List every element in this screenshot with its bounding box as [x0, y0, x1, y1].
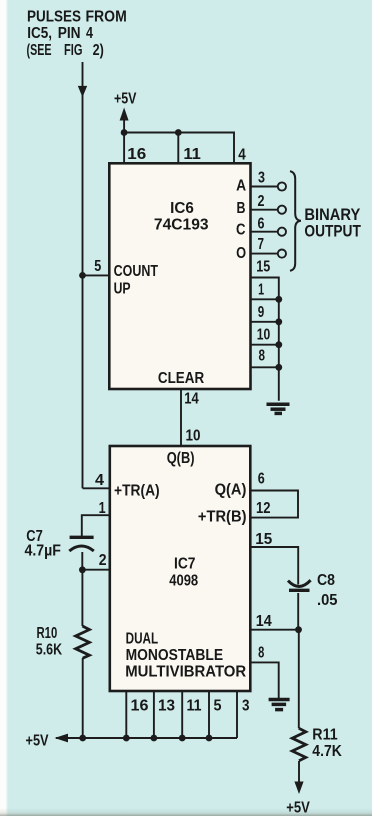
pin number 14 (IC7 right) [256, 612, 273, 630]
svg-text:IC5,: IC5, [27, 25, 52, 42]
svg-text:PULSES: PULSES [27, 9, 81, 26]
svg-text:8: 8 [259, 347, 266, 364]
label output A [236, 178, 246, 195]
capacitor C7 [69, 537, 94, 551]
wire IC7 pin 8 to ground [250, 662, 278, 698]
junction dot pin 13 [151, 735, 158, 742]
wire IC6 pin 5 stub (COUNT UP) [83, 274, 110, 276]
label +TR(A) [114, 483, 160, 500]
svg-text:1: 1 [99, 499, 106, 517]
svg-text:4.7K: 4.7K [312, 743, 342, 760]
svg-text:14: 14 [184, 391, 199, 408]
wire R10 bottom to +5V bus [82, 658, 84, 738]
wire IC6 pin 15 to ground bus [251, 278, 279, 401]
junction dot pin 14 / C8 / R11 [295, 626, 302, 633]
wire +5V arrow stem (top) [123, 111, 125, 133]
svg-text:C8: C8 [317, 572, 335, 589]
wire C8 bottom to pin 14 junction [297, 593, 299, 630]
svg-text:16: 16 [127, 146, 146, 163]
pin number 10 (IC6 right) [257, 325, 271, 343]
svg-text:+5V: +5V [114, 89, 137, 107]
svg-text:FIG: FIG [64, 41, 82, 58]
pin number 4 (IC7 left) [95, 472, 104, 489]
svg-text:4: 4 [95, 472, 104, 489]
wire IC7 pin 14 stub [250, 629, 298, 631]
junction dot pin 5 on input line [79, 272, 86, 279]
wire IC7 pin 1 to capacitor C7 [82, 515, 110, 536]
junction dot pin 5 [206, 735, 213, 742]
svg-text:3: 3 [242, 698, 249, 715]
svg-text:+TR(A): +TR(A) [114, 483, 160, 500]
svg-text:Q(A): Q(A) [215, 481, 247, 498]
label IC6 74C193 [154, 200, 209, 233]
junction dot pin 9 [275, 318, 282, 325]
label BINARY OUTPUT [304, 206, 361, 241]
capacitor C8 [288, 580, 311, 590]
label +5V top [114, 89, 137, 107]
wire IC7 pin 13 stub [153, 691, 155, 738]
wire IC6 pin 9 stub [251, 321, 279, 323]
svg-text:B: B [237, 199, 246, 217]
wire IC6 pin 1 stub [251, 298, 279, 300]
label +5V bottom right [286, 799, 310, 816]
terminal circle pin 6 [278, 228, 286, 236]
svg-text:MONOSTABLE: MONOSTABLE [126, 647, 224, 664]
pin number 7 [258, 235, 265, 252]
svg-text:13: 13 [158, 697, 175, 714]
terminal circle pin 2 [278, 206, 286, 214]
pin number 2 [258, 192, 265, 210]
wire IC7 pin 2 stub [82, 569, 110, 571]
pin number 6 [258, 214, 265, 232]
wire IC7 pin 15 to capacitor C8 [250, 547, 298, 585]
label R11 value [312, 727, 342, 760]
svg-text:+5V: +5V [26, 732, 50, 749]
svg-text:6: 6 [258, 469, 265, 487]
wire R11 bottom to +5V arrow [298, 761, 300, 782]
ground symbol at IC7 pin 8 [269, 700, 290, 710]
svg-text:1: 1 [258, 280, 264, 297]
wire IC6 pin 2 output B [251, 209, 278, 211]
svg-text:DUAL: DUAL [126, 630, 159, 647]
wire IC6 pin 14 CLEAR to IC7 pin 10 [180, 389, 182, 446]
label IC7 4098 [169, 556, 198, 590]
label Q(A) [215, 481, 247, 498]
junction dot pin 1 [275, 296, 282, 303]
arrowhead +5V top (pointing up) [120, 108, 129, 121]
svg-text:IC7: IC7 [174, 556, 195, 573]
pin number 16 (IC6 top) [127, 146, 146, 163]
wire IC6 pin 7 output O [251, 253, 278, 255]
label Q(B) [167, 450, 195, 467]
svg-text:7: 7 [258, 235, 265, 252]
svg-text:15: 15 [256, 257, 270, 275]
junction dot pin 11 [179, 735, 186, 742]
label output C [236, 222, 245, 239]
wire IC7 pin 5 stub [208, 691, 210, 738]
svg-text:COUNT: COUNT [114, 262, 159, 280]
wire IC7 pin 4 +TR(A) from input line [83, 487, 110, 489]
wire C7 bottom to junction [81, 552, 83, 570]
svg-text:4.7µF: 4.7µF [25, 543, 61, 560]
label C7 value [25, 528, 61, 560]
label R10 value [36, 625, 63, 658]
svg-text:2: 2 [258, 192, 265, 210]
svg-text:+TR(B): +TR(B) [198, 508, 247, 525]
pin number 9 (IC6 right) [258, 303, 265, 320]
terminal circle pin 3 [278, 182, 286, 190]
wire junction to R10 top [81, 570, 83, 626]
label CLEAR [158, 370, 205, 387]
label COUNT UP [114, 262, 159, 297]
svg-text:MULTIVIBRATOR: MULTIVIBRATOR [125, 663, 246, 680]
pin number 1 (IC6 right) [258, 280, 264, 297]
svg-text:(SEE: (SEE [27, 41, 52, 58]
svg-text:9: 9 [258, 303, 265, 320]
wire IC7 pin 3 stub [236, 691, 238, 738]
svg-text:BINARY: BINARY [304, 206, 360, 224]
pin number 12 (IC7 right) [256, 500, 271, 517]
svg-text:14: 14 [256, 612, 273, 630]
pin number 3 [258, 168, 265, 186]
svg-text:16: 16 [131, 698, 149, 715]
svg-text:2: 2 [99, 553, 107, 570]
label DUAL MONOSTABLE MULTIVIBRATOR [125, 630, 246, 680]
svg-text:C: C [236, 222, 245, 239]
pin number 3 (IC7 bottom) [242, 698, 249, 715]
wire IC6 pin 3 output A [251, 186, 278, 188]
junction dot pin 16 [123, 735, 130, 742]
pin number 15 [256, 257, 270, 275]
svg-text:R11: R11 [312, 727, 337, 744]
arrowhead on input pulse line [78, 86, 87, 97]
junction dot R10 on +5V bus [79, 735, 86, 742]
ground symbol below IC6 pins [267, 404, 290, 413]
resistor R10 [76, 626, 90, 658]
label +TR(B) [198, 508, 247, 525]
junction dot at pin 11 stub [175, 129, 182, 136]
pin number 4 (IC6 top) [238, 147, 245, 164]
label input pulses from IC5 pin 4 [27, 9, 127, 59]
wire IC6 pin 16 stub [123, 133, 125, 164]
svg-text:74C193: 74C193 [154, 216, 209, 233]
pin number 14 (IC6 bottom) [184, 391, 199, 408]
pin number 8 (IC7 right) [258, 644, 265, 661]
svg-text:.05: .05 [317, 591, 337, 608]
svg-text:6: 6 [258, 214, 265, 232]
junction dot pin 10 [275, 341, 282, 348]
pin number 16 (IC7 bottom) [131, 698, 149, 715]
svg-text:5: 5 [94, 257, 101, 275]
svg-text:+5V: +5V [286, 799, 310, 816]
svg-text:4098: 4098 [169, 572, 198, 589]
svg-text:O: O [236, 245, 246, 262]
label output B [237, 199, 246, 217]
pin number 5 (IC6 left) [94, 257, 101, 275]
svg-text:11: 11 [183, 145, 201, 162]
svg-text:4: 4 [86, 24, 93, 42]
label C8 value [317, 572, 337, 608]
pin number 13 (IC7 bottom) [158, 697, 175, 714]
svg-text:IC6: IC6 [170, 200, 194, 217]
label +5V bottom left [26, 732, 50, 749]
wire IC6 pin 11 stub [177, 133, 179, 164]
svg-text:8: 8 [258, 644, 265, 661]
svg-text:4: 4 [238, 147, 245, 164]
pin number 8 (IC6 right) [259, 347, 266, 364]
arrowhead +5V bottom right (pointing down) [294, 782, 303, 795]
label output O [236, 245, 246, 262]
svg-text:UP: UP [114, 279, 131, 297]
wire junction to R11 top [298, 630, 300, 729]
pin number 11 (IC6 top) [183, 145, 201, 162]
svg-text:A: A [236, 178, 246, 195]
svg-text:CLEAR: CLEAR [158, 370, 205, 387]
pin number 5 (IC7 bottom) [214, 697, 222, 715]
pin number 2 (IC7 left) [99, 553, 107, 570]
svg-text:OUTPUT: OUTPUT [304, 222, 361, 240]
junction dot pin 8 [275, 364, 282, 371]
svg-text:15: 15 [255, 531, 272, 548]
pin number 11 (IC7 bottom) [187, 698, 202, 715]
wire IC6 pin 8 stub [251, 366, 279, 368]
svg-text:PIN: PIN [58, 25, 81, 42]
wire IC6 pin 6 output C [251, 231, 278, 233]
pin number 6 (IC7 right) [258, 469, 265, 487]
brace for binary output [290, 171, 301, 271]
svg-text:2): 2) [93, 41, 104, 59]
IC7 4098 body [110, 446, 251, 691]
pin number 15 (IC7 right) [255, 531, 272, 548]
junction dot pin 2 / C7 / R10 [79, 566, 86, 573]
wire IC6 pin 10 stub [251, 344, 279, 346]
wire +5V bus to IC6 pins 16 11 4 [124, 133, 234, 164]
wire IC7 pin 11 stub [181, 691, 183, 738]
wire IC7 pin 6 to pin 12 loop [250, 491, 298, 518]
wire input pulses vertical line from IC5 [82, 62, 84, 488]
pin number 1 (IC7 left) [99, 499, 106, 517]
wire bottom +5V bus [56, 737, 237, 739]
arrowhead +5V bottom left (pointing left) [55, 734, 69, 743]
resistor R11 [292, 728, 306, 761]
junction dot at pin 16 stub [121, 129, 128, 136]
svg-text:12: 12 [256, 500, 271, 517]
svg-text:5: 5 [214, 697, 222, 715]
svg-text:3: 3 [258, 168, 265, 186]
pin number 10 (IC7 top) [186, 428, 201, 445]
svg-text:11: 11 [187, 698, 202, 715]
IC6 74C193 body [109, 163, 250, 389]
svg-text:5.6K: 5.6K [36, 640, 63, 658]
svg-text:10: 10 [186, 428, 201, 445]
svg-text:10: 10 [257, 325, 271, 343]
wire IC7 pin 16 stub [125, 691, 127, 738]
svg-text:Q(B): Q(B) [167, 450, 195, 467]
terminal circle pin 7 [278, 250, 286, 258]
